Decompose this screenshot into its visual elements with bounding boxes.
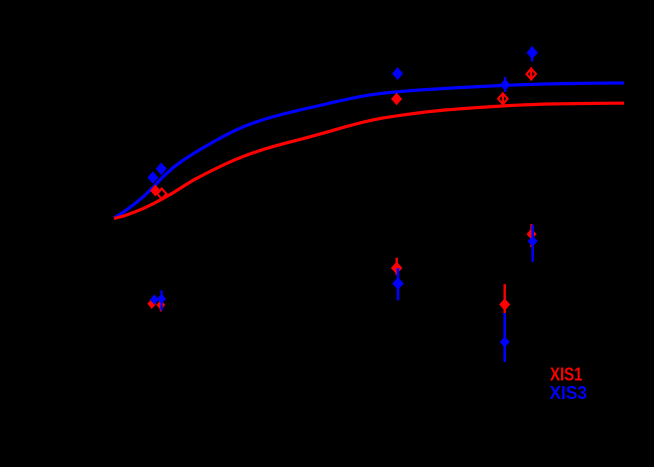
right lower pair: XIS1 point (red filled diamond) xyxy=(527,228,537,239)
upper-right group: XIS1 point (red open diamond) xyxy=(498,93,508,104)
svg-text:XIS1: XIS1 xyxy=(550,365,583,385)
lower-right group: XIS1 point (red filled diamond) xyxy=(499,298,510,310)
upper-left cluster: XIS3 point 2 (blue filled diamond) xyxy=(156,163,167,176)
upper-left cluster: XIS3 point 1 (blue filled diamond) xyxy=(147,171,158,184)
upper-left cluster: XIS1 point 2 (red open diamond) xyxy=(157,189,166,199)
lower-right group: XIS1 error bar xyxy=(504,284,506,313)
upper-middle: XIS1 point (red filled diamond) xyxy=(391,93,402,105)
upper-right group: XIS3 error bar xyxy=(504,77,506,92)
upper-right group: XIS1 error bar xyxy=(502,93,504,107)
lower-left cluster: XIS1 point 1 (red filled diamond) xyxy=(147,299,156,309)
far-right top: XIS3 point (blue filled diamond) xyxy=(527,46,539,59)
upper-right group: XIS3 point (blue filled diamond) xyxy=(500,79,511,91)
lower-left cluster: XIS3 point 2 (blue filled diamond) xyxy=(157,294,166,304)
right lower pair: XIS3 point (blue filled diamond) xyxy=(528,236,538,247)
far-right top: XIS1 error bar xyxy=(530,67,532,80)
XIS3 model curve (blue) xyxy=(114,83,624,218)
lower-left cluster: XIS3 error bar xyxy=(160,290,162,310)
far-right top: XIS3 error bar xyxy=(531,47,533,62)
lower-left cluster: XIS3 point 1 (blue filled diamond) xyxy=(150,294,159,304)
right lower pair: XIS3 error bar xyxy=(531,225,534,262)
upper-middle: XIS3 point (blue filled diamond) xyxy=(392,67,403,80)
right lower pair: XIS1 error bar xyxy=(530,224,532,247)
lower-left cluster: XIS1 error bar xyxy=(160,297,162,312)
lower-middle: XIS1 error bar xyxy=(396,258,398,275)
lower-middle: XIS3 error bar xyxy=(397,268,400,300)
upper-left cluster: XIS1 point 1 (red filled diamond) xyxy=(150,185,161,197)
lower-right group: XIS3 point (blue filled diamond) xyxy=(500,336,510,347)
XIS1 model curve (red) xyxy=(114,103,624,218)
lower-right group: XIS3 error bar xyxy=(503,313,506,362)
far-right top: XIS1 point (red open diamond) xyxy=(527,69,537,80)
lower-left cluster: XIS1 point 2 (red filled diamond) xyxy=(156,300,165,310)
svg-text:XIS3: XIS3 xyxy=(550,383,588,403)
lower-middle: XIS1 point (red filled diamond) xyxy=(391,262,403,275)
lower-middle: XIS3 point (blue filled diamond) xyxy=(392,277,404,290)
